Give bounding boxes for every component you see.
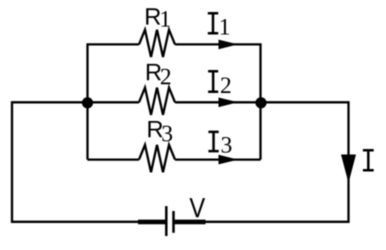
wire: left loop (middle rail left, left side down, bottom left to battery)	[12, 102, 165, 222]
arrow I1	[219, 40, 239, 50]
node: left junction dot	[82, 97, 93, 108]
wire: thick stub right of battery	[174, 220, 206, 225]
arrow I2	[219, 98, 239, 108]
resistor R3	[139, 145, 175, 172]
wire: bottom branch right segment	[175, 158, 261, 160]
label V (battery)	[190, 198, 206, 217]
wire: top branch right segment + right connector	[175, 44, 261, 159]
arrow I3	[219, 155, 239, 165]
resistor R2	[139, 88, 175, 115]
label I3 (I-beam glyph + subscript)	[208, 132, 231, 153]
arrow I (total current, right side)	[341, 155, 356, 184]
label I (total current)	[363, 150, 374, 170]
battery V: short plate	[172, 211, 175, 233]
wire: bottom branch left segment	[88, 158, 140, 160]
label R3	[148, 121, 172, 141]
label R2	[147, 64, 170, 84]
label R1	[146, 8, 169, 26]
node: right junction dot	[255, 97, 266, 108]
wire: thick stub left of battery	[138, 220, 166, 225]
label I2 (I-beam glyph + subscript)	[208, 71, 230, 93]
label I1 (I-beam glyph + subscript)	[208, 13, 229, 34]
resistor R1	[139, 30, 175, 57]
battery V: long plate	[165, 206, 168, 236]
wire: left connector + top branch left segment	[88, 44, 140, 159]
wire: right loop (middle rail right, right side down, bottom right to battery)	[175, 102, 349, 222]
